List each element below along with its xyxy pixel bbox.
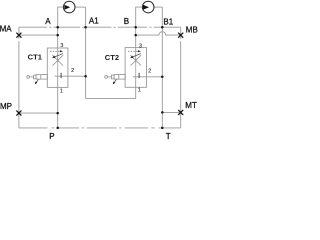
- svg-text:CT1: CT1: [28, 52, 43, 61]
- svg-text:T: T: [166, 132, 171, 141]
- svg-text:A1: A1: [89, 17, 99, 26]
- svg-text:CT2: CT2: [105, 53, 119, 62]
- svg-text:2: 2: [148, 68, 151, 74]
- svg-text:B: B: [124, 17, 129, 26]
- svg-text:3: 3: [139, 44, 142, 50]
- svg-text:MB: MB: [186, 25, 198, 34]
- svg-text:1: 1: [138, 87, 141, 93]
- svg-text:A: A: [45, 17, 51, 26]
- svg-text:3: 3: [60, 43, 63, 49]
- svg-text:P: P: [49, 132, 54, 141]
- svg-text:B1: B1: [163, 17, 173, 26]
- svg-text:MP: MP: [0, 102, 12, 111]
- svg-text:2: 2: [71, 68, 74, 74]
- svg-text:MA: MA: [0, 24, 12, 33]
- svg-text:1: 1: [60, 89, 63, 95]
- svg-text:MT: MT: [185, 101, 197, 110]
